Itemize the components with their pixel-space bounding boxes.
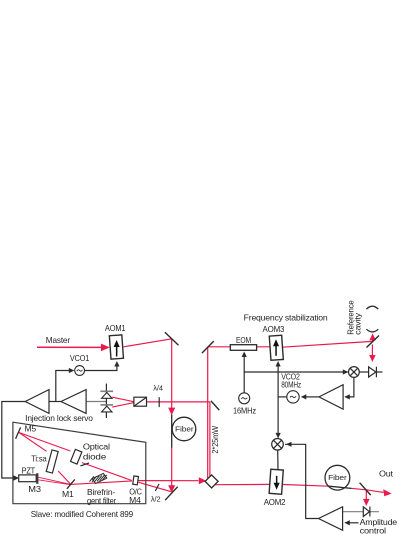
svg-text:80MHz: 80MHz <box>281 381 301 390</box>
svg-text:diode: diode <box>83 453 107 462</box>
svg-text:Fiber: Fiber <box>328 473 347 482</box>
svg-text:λ/4: λ/4 <box>153 384 163 393</box>
svg-text:2*25mW: 2*25mW <box>211 426 220 454</box>
svg-text:Frequency stabilization: Frequency stabilization <box>244 313 328 322</box>
svg-text:AOM2: AOM2 <box>264 498 286 507</box>
svg-text:PZT: PZT <box>22 467 36 476</box>
svg-text:M4: M4 <box>129 496 141 505</box>
svg-text:M3: M3 <box>28 485 41 494</box>
svg-text:Ti:sa: Ti:sa <box>31 454 47 463</box>
svg-text:AOM1: AOM1 <box>105 324 126 333</box>
svg-text:M1: M1 <box>62 490 74 499</box>
svg-text:Out: Out <box>379 470 394 479</box>
svg-text:EOM: EOM <box>236 336 251 345</box>
svg-text:Injection lock servo: Injection lock servo <box>25 414 93 423</box>
svg-text:16MHz: 16MHz <box>233 407 256 416</box>
svg-text:λ/2: λ/2 <box>151 495 161 504</box>
svg-text:control: control <box>360 526 387 535</box>
svg-text:Slave: modified Coherent 899: Slave: modified Coherent 899 <box>31 510 134 519</box>
svg-text:Birefrin-: Birefrin- <box>87 488 115 497</box>
svg-text:Master: Master <box>46 336 71 345</box>
svg-text:VCO1: VCO1 <box>70 354 90 363</box>
svg-text:cavity: cavity <box>354 312 363 335</box>
svg-text:Optical: Optical <box>83 443 110 452</box>
svg-text:M5: M5 <box>25 425 37 434</box>
svg-text:gent filter: gent filter <box>87 497 116 506</box>
svg-text:AOM3: AOM3 <box>263 325 285 334</box>
svg-text:Fiber: Fiber <box>175 425 194 434</box>
